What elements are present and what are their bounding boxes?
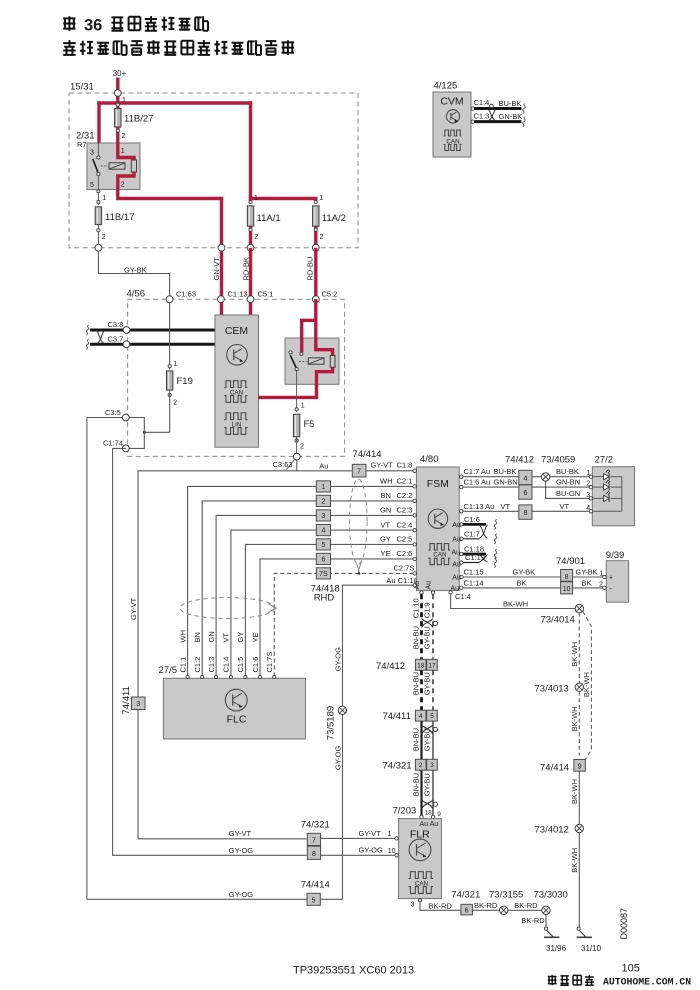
svg-text:C1:8: C1:8 <box>397 461 413 470</box>
svg-text:FLC: FLC <box>227 714 247 726</box>
svg-text:6: 6 <box>523 490 527 497</box>
svg-text:73/4013: 73/4013 <box>535 683 569 694</box>
svg-text:6: 6 <box>465 907 469 914</box>
svg-text:73/3155: 73/3155 <box>489 889 523 900</box>
svg-text:2: 2 <box>300 444 304 451</box>
svg-text:BU-BK: BU-BK <box>494 467 517 476</box>
wire BU-BK C1:7 to 27/2 pin1 <box>460 467 591 478</box>
svg-text:GN-BN: GN-BN <box>494 478 518 487</box>
twisted-pair marker CVM <box>488 104 496 121</box>
control module FLC 27/5 <box>159 665 306 739</box>
splice 73/4014 <box>541 604 584 625</box>
svg-text:73/4059: 73/4059 <box>541 455 575 466</box>
wire GY-BU (solid) 74/411 to FLR <box>423 721 433 815</box>
svg-text:GN-VT: GN-VT <box>212 257 221 281</box>
svg-text:BK: BK <box>582 578 592 587</box>
splice 73/3155 <box>489 889 523 914</box>
wire VT C2:4 loop to FLC C1:4 <box>231 530 414 676</box>
svg-text:74/901: 74/901 <box>556 556 585 567</box>
svg-text:8: 8 <box>312 851 316 858</box>
svg-text:1: 1 <box>121 148 125 155</box>
svg-text:GY-OG: GY-OG <box>333 647 342 671</box>
svg-text:GY-VT: GY-VT <box>229 829 252 838</box>
svg-text:C1:5: C1:5 <box>236 657 245 673</box>
svg-text:GN: GN <box>380 506 391 515</box>
svg-text:YE: YE <box>381 549 391 558</box>
svg-text:WH: WH <box>380 477 393 486</box>
svg-text:GN-BN: GN-BN <box>556 478 580 487</box>
svg-text:31/96: 31/96 <box>546 944 567 953</box>
twist marker pair C1:6/C1:7 <box>480 525 488 538</box>
svg-text:36: 36 <box>84 17 102 35</box>
svg-text:5: 5 <box>321 542 325 549</box>
svg-text:8: 8 <box>523 510 527 517</box>
svg-text:7: 7 <box>312 837 316 844</box>
svg-text:C3:5: C3:5 <box>105 408 121 417</box>
fuse 11B/27 <box>115 103 154 140</box>
svg-text:GY-OG: GY-OG <box>333 746 342 770</box>
connector 74/321 pin 6 <box>451 889 480 915</box>
FSM stub C1:18 (thick) <box>452 545 497 559</box>
svg-text:2: 2 <box>122 133 126 140</box>
svg-text:Au: Au <box>452 561 461 568</box>
svg-text:C2:2: C2:2 <box>397 491 413 500</box>
svg-text:VT: VT <box>381 520 391 529</box>
svg-text:74/411: 74/411 <box>383 711 411 722</box>
wire BN C2:2 loop to FLC C1:2 <box>202 501 413 677</box>
svg-text:27/2: 27/2 <box>595 455 614 466</box>
svg-text:1: 1 <box>321 484 325 491</box>
svg-text:74/412: 74/412 <box>376 661 405 672</box>
svg-text:73/5189: 73/5189 <box>326 706 337 740</box>
svg-text:4/56: 4/56 <box>127 288 146 299</box>
splice 73/5189 on GY-OG <box>326 647 347 770</box>
splice 73/3030 <box>534 889 568 914</box>
svg-text:2: 2 <box>254 234 258 241</box>
svg-text:BN-BU: BN-BU <box>411 728 420 751</box>
relay module FLR 7/203 <box>393 805 442 898</box>
wire RD-BU 11A/2 to C5:2 (red) <box>314 248 317 299</box>
svg-text:GY-OG: GY-OG <box>359 846 383 855</box>
svg-text:73/4014: 73/4014 <box>541 614 575 625</box>
svg-text:C2:1: C2:1 <box>397 477 413 486</box>
svg-text:C1:13 Au: C1:13 Au <box>464 502 495 511</box>
svg-text:9/39: 9/39 <box>606 550 625 561</box>
siren 9/39 <box>603 550 629 602</box>
svg-text:74/321: 74/321 <box>301 819 330 830</box>
svg-text:3: 3 <box>90 150 94 157</box>
svg-text:1: 1 <box>102 195 106 202</box>
CVM pin C1:3 wire GN-BK <box>471 111 525 126</box>
svg-text:GY: GY <box>380 535 391 544</box>
svg-text:BK-WH: BK-WH <box>570 779 579 804</box>
svg-text:C1:13: C1:13 <box>228 289 248 298</box>
svg-text:8: 8 <box>565 574 569 581</box>
svg-text:GY-BK: GY-BK <box>124 265 147 274</box>
diagram id D00087 <box>619 908 629 940</box>
svg-text:C1:4: C1:4 <box>455 592 471 601</box>
twist marker C1:10/C1:9 <box>422 619 438 628</box>
svg-text:GN-BK: GN-BK <box>499 112 523 121</box>
wire BK-WH C1:4 to splice 73/4014 <box>449 591 575 609</box>
svg-text:Au Au: Au Au <box>420 821 439 828</box>
shield wire C2:7S (dashed) to FLC C1:7S <box>274 573 413 676</box>
svg-text:BU-GN: BU-GN <box>556 489 580 498</box>
svg-text:3: 3 <box>430 762 434 769</box>
svg-text:1: 1 <box>174 361 178 368</box>
svg-text:R7: R7 <box>77 140 87 149</box>
wire GN C2:3 loop to FLC C1:3 <box>216 515 413 676</box>
wire GY-BK from 11B/17 to CEM C1:63 <box>98 251 169 296</box>
node C3:63 with leader <box>273 453 301 471</box>
svg-text:C1:7 Au: C1:7 Au <box>464 467 491 476</box>
footer part number <box>293 965 414 977</box>
svg-text:RHD: RHD <box>314 593 335 604</box>
svg-text:GY-BK: GY-BK <box>513 568 536 577</box>
svg-text:GY: GY <box>236 632 245 643</box>
fuse F19 <box>167 303 193 433</box>
svg-text:BN-BU: BN-BU <box>411 626 420 649</box>
svg-text:74/414: 74/414 <box>353 449 382 460</box>
svg-text:Au: Au <box>319 462 328 471</box>
svg-text:C1:6: C1:6 <box>464 515 480 524</box>
connector 74/411 pins 4,5 <box>383 710 438 722</box>
svg-text:105: 105 <box>622 963 640 975</box>
wire RD-BU to brake booster relay (red) <box>258 299 335 397</box>
fuse F5 <box>293 384 314 456</box>
svg-text:C1:2: C1:2 <box>193 657 202 673</box>
svg-text:9: 9 <box>578 763 582 770</box>
svg-text:BK-RD: BK-RD <box>514 901 538 910</box>
svg-text:C2:6: C2:6 <box>397 549 413 558</box>
svg-text:11B/27: 11B/27 <box>124 114 153 125</box>
FSM CAN stub C1:6 (thick) <box>452 515 496 529</box>
svg-text:Au: Au <box>452 550 461 557</box>
svg-text:BN: BN <box>193 632 202 642</box>
svg-text:C1:6 Au: C1:6 Au <box>464 478 491 487</box>
svg-text:GY-BU: GY-BU <box>423 672 432 695</box>
svg-text:4: 4 <box>523 475 527 482</box>
svg-text:73/4012: 73/4012 <box>535 824 569 835</box>
svg-text:D00087: D00087 <box>619 908 629 940</box>
rotated wire labels GN-VT RD-BK RD-BU <box>212 257 314 281</box>
svg-text:C5:2: C5:2 <box>322 289 338 298</box>
ground 31/96 <box>544 927 567 953</box>
svg-text:6: 6 <box>321 556 325 563</box>
svg-text:GY-VT: GY-VT <box>371 461 394 470</box>
node C1:74 <box>103 439 129 452</box>
wire BK-WH (dashed) 73/4013 to 74/414:9 <box>570 691 579 755</box>
title line 2: 带有电动刹车增压器的碰撞警报 <box>63 40 294 55</box>
connector 74/321 pins 2,3 <box>383 759 438 771</box>
svg-text:C1:15: C1:15 <box>464 568 484 577</box>
connector 74/411 pin 3 on GY-VT <box>121 597 145 714</box>
CVM pin C1:4 wire BU-BK <box>471 98 525 113</box>
svg-text:BK-WH: BK-WH <box>503 600 528 609</box>
svg-text:GY-VT: GY-VT <box>129 597 138 620</box>
relay 2/31 R7 <box>76 131 223 199</box>
title line 1: 组 36 附加电子设备 <box>63 16 208 34</box>
svg-text:C1:3: C1:3 <box>474 111 490 120</box>
control module CEM <box>215 315 259 447</box>
node 30+ on 15/31 box edge, pin 1 <box>114 90 126 104</box>
svg-text:BK-RD: BK-RD <box>474 901 498 910</box>
wire BK-RD FLR pin3 to ground 31/96 <box>411 899 546 927</box>
svg-text:18: 18 <box>417 662 425 669</box>
svg-text:BK-WH: BK-WH <box>570 848 579 873</box>
wire GY-VT to FLR pin1 via 74/321:7 <box>138 829 398 840</box>
svg-text:GY-BU: GY-BU <box>423 626 432 649</box>
ground 31/10 <box>577 927 602 953</box>
svg-text:4/125: 4/125 <box>434 81 458 92</box>
svg-text:2: 2 <box>121 182 125 189</box>
svg-text:1: 1 <box>388 831 392 838</box>
connector 74/321 pins 7,8 <box>301 819 330 859</box>
FSM bottom pins C1:10 / C1:9 (Au) <box>414 581 434 594</box>
svg-text:7/203: 7/203 <box>393 805 417 816</box>
svg-text:GN: GN <box>207 631 216 642</box>
lamp unit 27/2 with LEDs <box>589 455 634 526</box>
svg-text:C1:7: C1:7 <box>464 530 480 539</box>
svg-text:GY-OG: GY-OG <box>229 890 253 899</box>
cable harness ellipse (vertical, at 74/418) <box>350 479 368 575</box>
svg-text:BK-WH: BK-WH <box>582 672 591 697</box>
svg-text:1: 1 <box>122 97 126 104</box>
svg-text:VT: VT <box>222 632 231 642</box>
svg-text:30+: 30+ <box>113 69 127 78</box>
svg-text:C1:9: C1:9 <box>423 602 432 618</box>
svg-text:GY-BK: GY-BK <box>576 568 598 577</box>
svg-text:7S: 7S <box>319 571 328 578</box>
wire GY-BU (dashed) FSM to 74/412:17 <box>423 594 433 659</box>
wire RD-BK 11A/1 to C5:1 (red) <box>249 248 252 316</box>
svg-text:31/10: 31/10 <box>581 944 602 953</box>
twist marker pair C1:18/C1:19 <box>480 555 488 563</box>
svg-text:C1:3: C1:3 <box>207 657 216 673</box>
svg-text:1: 1 <box>254 195 258 202</box>
svg-text:11B/17: 11B/17 <box>105 212 134 223</box>
svg-text:Au: Au <box>452 536 461 543</box>
svg-text:RD-BK: RD-BK <box>242 257 251 280</box>
footer watermark 汽车之家 AUTOHOME.COM.CN <box>548 975 692 988</box>
twist marker above FLR 7/203 <box>422 800 438 809</box>
node C1:63 / C1:13 / C5:1 / C5:2 on 4/56 top edge <box>166 289 337 302</box>
svg-text:3: 3 <box>321 513 325 520</box>
svg-text:FSM: FSM <box>427 478 449 490</box>
wire BK C1:14 to 9/39 pin2 <box>451 578 604 592</box>
svg-text:WH: WH <box>178 630 187 643</box>
fuse 11A/2 <box>313 195 346 248</box>
svg-text:74/321: 74/321 <box>451 889 480 900</box>
connector 74/418 RHD pins 1-7S <box>311 481 340 604</box>
svg-text:C2:5: C2:5 <box>397 535 413 544</box>
svg-text:Au: Au <box>452 575 461 582</box>
svg-text:10: 10 <box>388 848 396 855</box>
svg-text:VT: VT <box>501 502 511 511</box>
wire C3:5 junction loop <box>87 418 170 449</box>
splice 73/4059 <box>541 455 575 482</box>
wire GN-BN C1:6 to 27/2 pin2 <box>460 478 591 489</box>
svg-text:C1:4: C1:4 <box>474 98 490 107</box>
svg-text:C3:7: C3:7 <box>108 334 124 343</box>
svg-text:1: 1 <box>319 195 323 202</box>
svg-text:11A/1: 11A/1 <box>257 213 281 224</box>
svg-text:5: 5 <box>430 713 434 720</box>
svg-text:2: 2 <box>419 762 423 769</box>
svg-text:4/80: 4/80 <box>420 454 439 465</box>
svg-text:2: 2 <box>173 400 177 407</box>
wire BK-WH (dashed bypass) 73/4014 to 74/414:9 <box>582 612 591 760</box>
connector 74/414 pin 9 <box>540 760 585 774</box>
svg-text:BK-RD: BK-RD <box>521 916 545 925</box>
twisted pair C3:8 / C3:7 (CEM CAN bus) <box>86 320 215 349</box>
svg-text:GY-BU: GY-BU <box>423 773 432 796</box>
wire 30+ feed (red) <box>97 78 252 202</box>
svg-text:2: 2 <box>102 234 106 241</box>
svg-text:C2:4: C2:4 <box>397 520 413 529</box>
svg-text:C2:7S: C2:7S <box>394 564 415 573</box>
wire BK-WH 74/414:9 to 73/4012 <box>570 771 579 824</box>
FSM CAN stub C1:7 (thin) <box>452 530 496 544</box>
wire BU-GN from splice to 27/2 pin3 <box>546 479 591 499</box>
svg-text:2: 2 <box>320 234 324 241</box>
svg-text:74/414: 74/414 <box>540 763 569 774</box>
svg-text:C1:4: C1:4 <box>222 657 231 673</box>
net 30+ label <box>113 69 127 78</box>
svg-text:Au: Au <box>426 581 433 590</box>
cable harness ellipse (horizontal, above FLC) <box>180 598 276 619</box>
wire GY-OG C1:16 down to 73/5189 <box>343 585 414 899</box>
svg-text:7: 7 <box>357 468 361 475</box>
svg-text:C1:14: C1:14 <box>464 578 484 587</box>
svg-text:BK: BK <box>517 578 527 587</box>
wire GY-BK C1:15 to 9/39 pin1 <box>452 568 603 582</box>
wire GY C2:5 loop to FLC C1:5 <box>245 544 413 676</box>
svg-text:BK-WH: BK-WH <box>570 706 579 731</box>
svg-text:74/414: 74/414 <box>301 880 330 891</box>
svg-text:11A/2: 11A/2 <box>322 213 346 224</box>
svg-text:TP39253551 XC60 2013: TP39253551 XC60 2013 <box>293 965 414 977</box>
svg-text:BN-BU: BN-BU <box>411 672 420 695</box>
svg-text:74/412: 74/412 <box>505 455 534 466</box>
svg-text:C1:74: C1:74 <box>103 439 123 448</box>
node C3:5 <box>105 408 129 421</box>
svg-text:9: 9 <box>437 811 441 818</box>
splice 73/4012 <box>535 824 584 835</box>
svg-text:GY-OG: GY-OG <box>229 846 253 855</box>
svg-text:F5: F5 <box>304 419 315 430</box>
svg-text:73/3030: 73/3030 <box>534 889 568 900</box>
svg-text:4: 4 <box>419 713 423 720</box>
svg-text:27/5: 27/5 <box>159 665 178 676</box>
FSM left pin circles <box>413 469 416 587</box>
svg-text:C2:3: C2:3 <box>397 506 413 515</box>
svg-text:10: 10 <box>563 586 571 593</box>
connector 74/414 pin 5 <box>301 880 330 906</box>
svg-text:CVM: CVM <box>440 96 463 108</box>
svg-text:BN: BN <box>381 491 391 500</box>
svg-text:Au C1:16: Au C1:16 <box>386 576 417 585</box>
svg-text:BK-RD: BK-RD <box>429 901 453 910</box>
wire BN-BU (solid) 74/411 to FLR <box>411 721 421 815</box>
connector 74/414 pin 7 on GY-VT wire <box>319 449 412 477</box>
svg-text:C3:8: C3:8 <box>108 320 124 329</box>
footer page number 105 <box>622 963 640 975</box>
svg-text:C1:7S: C1:7S <box>265 652 274 673</box>
svg-text:3: 3 <box>411 902 415 909</box>
fuse holder box 15/31 (dashed) <box>69 82 358 248</box>
svg-text:RD-BU: RD-BU <box>305 257 314 281</box>
connector 74/901 pins 8,10 <box>556 556 585 594</box>
wire YE C2:6 loop to FLC C1:6 <box>260 559 414 677</box>
svg-text:YE: YE <box>251 632 260 642</box>
svg-text:2: 2 <box>321 498 325 505</box>
wire VT C1:13 to 27/2 pin4 <box>460 502 591 513</box>
wire BK-WH 73/4012 to ground 31/10 <box>570 833 579 928</box>
svg-text:GY-VT: GY-VT <box>359 829 382 838</box>
fuse 11B/17 <box>95 190 134 247</box>
svg-text:Au: Au <box>414 581 421 590</box>
fuse 11A/1 <box>247 195 280 248</box>
twist marker below 74/411 <box>422 725 438 734</box>
FSM row labels <box>380 477 418 585</box>
svg-text:4: 4 <box>321 528 325 535</box>
brake booster relay (in 4/56) <box>285 338 339 384</box>
connector 74/412 pins 18,17 <box>376 659 437 671</box>
CEM dashed enclosure 4/56 <box>127 288 345 456</box>
svg-text:18: 18 <box>425 810 433 817</box>
svg-text:AUTOHOME.COM.CN: AUTOHOME.COM.CN <box>603 977 691 988</box>
wire BN-BU (dashed) 74/412 to 74/411 <box>411 670 421 710</box>
svg-text:74/321: 74/321 <box>383 761 412 772</box>
wire GY-OG C1:74 to FLR pin10 via 74/321:8 <box>113 448 399 857</box>
svg-text:C5:1: C5:1 <box>258 289 274 298</box>
svg-text:VT: VT <box>560 502 570 511</box>
svg-text:5: 5 <box>312 897 316 904</box>
svg-text:C3:63: C3:63 <box>273 460 293 469</box>
wire WH C2:1 loop to FLC C1:1 <box>188 486 414 676</box>
splice 73/4013 <box>535 683 584 694</box>
connector 74/412 pins 4,6,8 <box>505 455 534 520</box>
svg-text:BU-BK: BU-BK <box>499 99 522 108</box>
svg-text:5: 5 <box>90 182 94 189</box>
svg-text:CEM: CEM <box>225 325 248 337</box>
wire GY-OG C3:5 to FSM C1:16 via 74/414:5 <box>87 418 343 900</box>
svg-text:C1:6: C1:6 <box>251 657 260 673</box>
svg-text:BU-BK: BU-BK <box>556 467 579 476</box>
wire GY-BU (dashed) 74/412 to 74/411 <box>423 670 433 710</box>
wire BK-WH (dashed) 73/4014 to 73/4013 <box>570 613 579 683</box>
control module FSM 4/80 <box>416 454 459 591</box>
wire 11A/2 feed (red) <box>249 199 318 202</box>
FSM stub C1:19 (thin) <box>452 553 496 568</box>
svg-text:C1:10: C1:10 <box>411 598 420 618</box>
wire GN-VT relay output (red) <box>220 197 223 316</box>
svg-text:17: 17 <box>428 662 436 669</box>
svg-text:15/31: 15/31 <box>70 82 94 93</box>
nodes on 15/31 bottom edge <box>95 244 319 251</box>
svg-text:BK-WH: BK-WH <box>570 642 579 667</box>
svg-text:74/411: 74/411 <box>121 686 132 714</box>
svg-text:1: 1 <box>301 403 305 410</box>
wire Au/GY-VT net (C1:8 to 74/411 to 74/321:7) <box>138 471 414 840</box>
control module CVM 4/125 <box>433 81 471 158</box>
svg-text:F19: F19 <box>177 376 193 387</box>
rotated pin labels C1:1-C1:7S above FLC <box>178 652 274 673</box>
svg-text:BN-BU: BN-BU <box>411 773 420 796</box>
svg-text:Au: Au <box>452 522 461 529</box>
svg-text:3: 3 <box>136 701 140 708</box>
